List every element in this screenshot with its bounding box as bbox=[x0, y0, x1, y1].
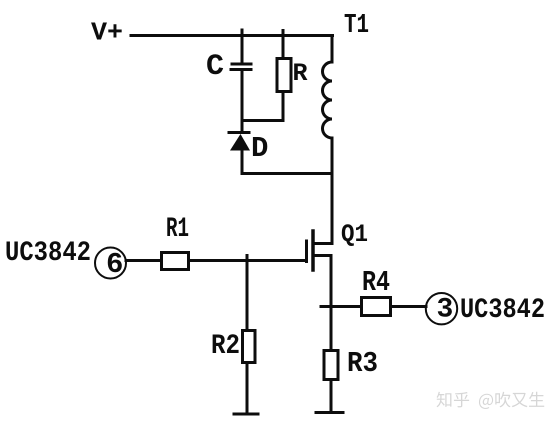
svg-text:R: R bbox=[293, 59, 308, 88]
svg-text:D: D bbox=[251, 132, 268, 165]
svg-text:6: 6 bbox=[106, 248, 123, 281]
svg-text:R3: R3 bbox=[347, 347, 378, 380]
svg-text:UC3842: UC3842 bbox=[460, 295, 545, 326]
svg-text:T1: T1 bbox=[344, 11, 369, 41]
svg-text:C: C bbox=[206, 50, 224, 84]
svg-text:Q1: Q1 bbox=[341, 220, 368, 249]
svg-text:R4: R4 bbox=[362, 266, 390, 299]
svg-text:UC3842: UC3842 bbox=[5, 238, 91, 269]
svg-text:V+: V+ bbox=[91, 18, 123, 48]
svg-text:R2: R2 bbox=[211, 331, 240, 362]
svg-text:3: 3 bbox=[437, 295, 454, 326]
svg-text:R1: R1 bbox=[166, 214, 189, 245]
